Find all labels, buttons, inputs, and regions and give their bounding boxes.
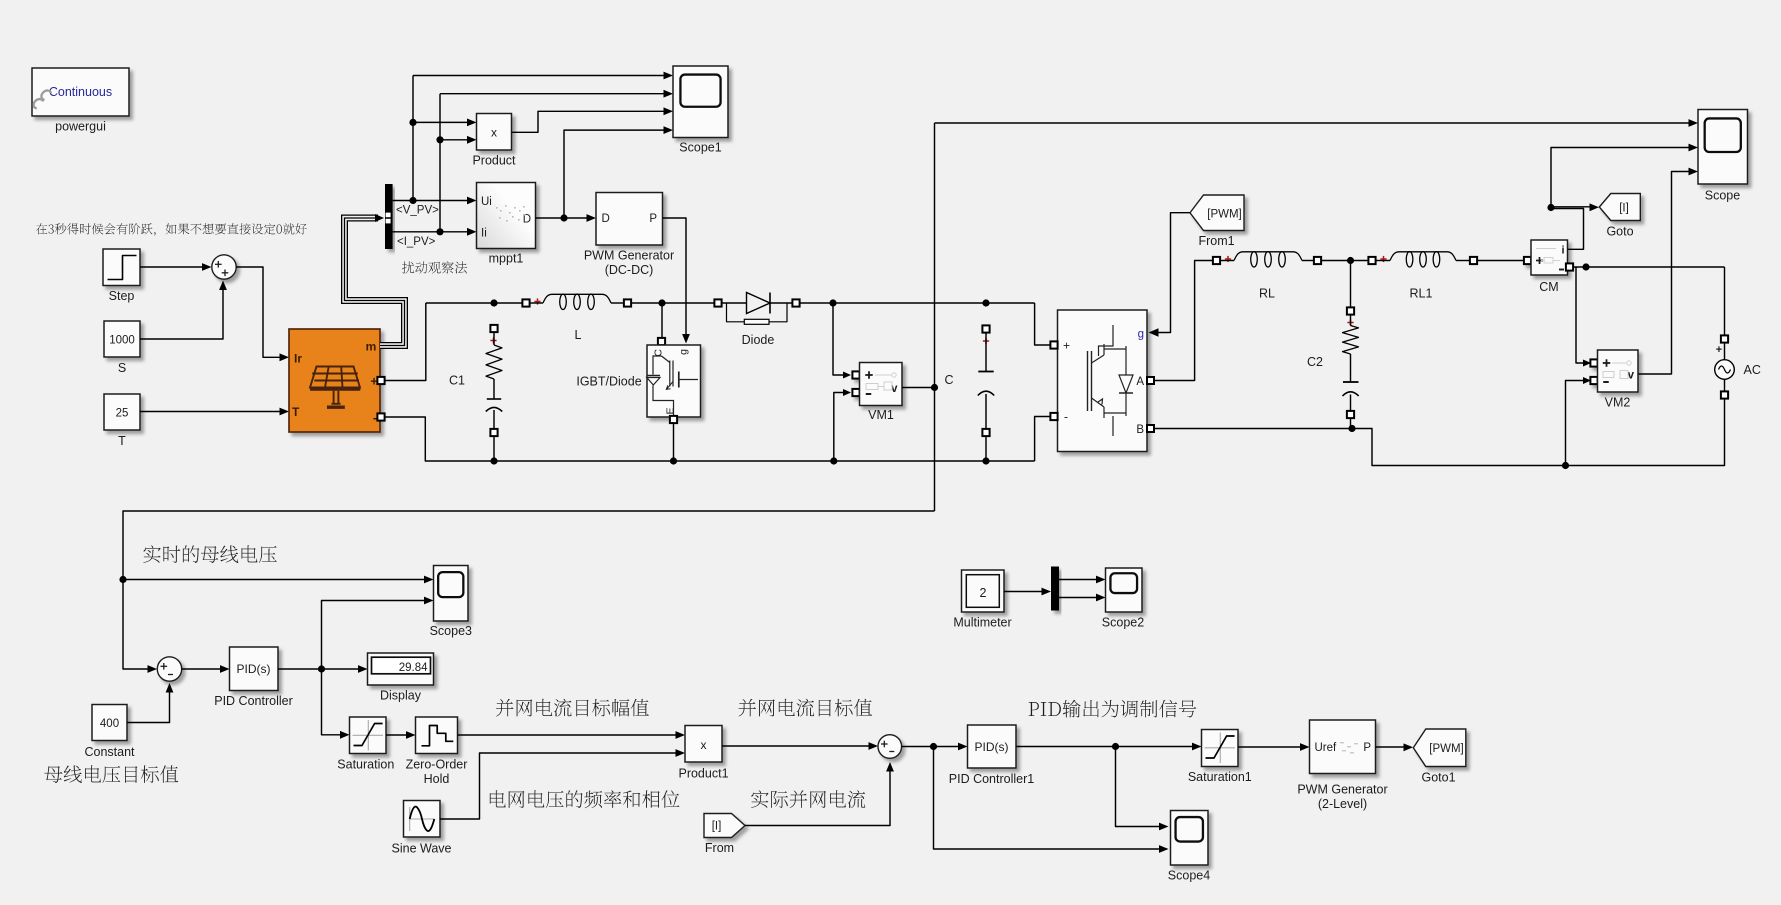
svg-text:-: - <box>1064 410 1068 424</box>
wire V_PV to Scope1 input 1 <box>413 72 673 80</box>
wire PID1 tap to Scope4 input 1 <box>1116 747 1169 831</box>
wire Product to Scope1 input 3 <box>512 107 674 132</box>
svg-text:C2: C2 <box>1307 355 1323 369</box>
svg-text:C: C <box>653 349 665 357</box>
wire RL1 to CM <box>1477 260 1524 262</box>
svg-text:Scope4: Scope4 <box>1168 869 1210 883</box>
bus wire PV m to Bus Selector <box>345 214 405 346</box>
scope block Scope2 <box>1106 568 1143 612</box>
wire PID1 to Saturation1 <box>1016 743 1202 751</box>
Bus Selector mux bar <box>385 184 393 249</box>
signal label <I_PV> <box>397 236 436 248</box>
AC voltage source <box>1715 335 1735 398</box>
wire Sum4 to PID Controller1 <box>902 743 968 751</box>
IGBT E port and wire to bottom rail <box>670 416 677 461</box>
wire CM i to junction <box>1551 209 1584 250</box>
port L left <box>522 298 540 306</box>
svg-text:Product: Product <box>472 154 516 168</box>
wire PID to Scope3 input 2 <box>322 597 434 669</box>
wire From1 to bridge gate <box>1158 213 1190 333</box>
wire VM1 v measurement vertical <box>902 123 938 511</box>
wire bottom rail to bridge - <box>1035 417 1051 462</box>
wire S to Sum lower input <box>140 281 227 340</box>
bridge ports <box>1050 341 1154 432</box>
wire Step to Sum <box>140 263 212 271</box>
svg-text:E: E <box>665 407 677 414</box>
svg-text:L: L <box>575 328 582 342</box>
svg-text:Ir: Ir <box>294 352 302 366</box>
svg-text:1000: 1000 <box>109 335 135 347</box>
svg-text:25: 25 <box>116 408 129 420</box>
wire V_PV to mppt1 Ui <box>393 197 477 205</box>
svg-text:Display: Display <box>380 689 422 703</box>
powergui block <box>32 68 129 116</box>
DC bottom rail wire <box>385 417 1035 465</box>
wire IGBT collector tap <box>658 303 665 345</box>
bridge gate arrow <box>1149 328 1159 336</box>
diode Diode with snubber <box>722 293 793 325</box>
From tag From1 [PWM] <box>1190 195 1244 231</box>
wire bridge A to RL <box>1154 261 1213 381</box>
svg-text:Goto1: Goto1 <box>1421 770 1455 784</box>
port diode right <box>792 299 799 306</box>
constant T = 25 <box>104 394 140 430</box>
svg-text:Ui: Ui <box>481 196 492 208</box>
port diode left <box>714 299 721 306</box>
svg-text:PID Controller: PID Controller <box>214 694 293 708</box>
source block Step <box>103 249 140 286</box>
svg-text:AC: AC <box>1744 363 1761 377</box>
voltmeter block VM1 <box>852 363 902 406</box>
annotation PID output is modulation signal <box>1029 700 1197 718</box>
demux to Scope2 wires <box>1059 576 1106 602</box>
svg-text:Scope2: Scope2 <box>1102 615 1144 629</box>
wire ZOH to Product1 input 1 <box>458 731 686 739</box>
capacitor branch C2 <box>1343 261 1359 429</box>
svg-text:g: g <box>678 349 690 355</box>
wire top rail to bridge + <box>1035 303 1051 345</box>
svg-text:RL: RL <box>1259 287 1275 301</box>
svg-text:VM2: VM2 <box>1605 396 1631 410</box>
Goto tag [I] <box>1599 194 1640 221</box>
annotation note step at 3s <box>36 223 307 236</box>
svg-text:PID(s): PID(s) <box>975 740 1009 754</box>
svg-text:mppt1: mppt1 <box>489 252 524 266</box>
multiplier block Product1 <box>685 726 722 763</box>
svg-text:Sine Wave: Sine Wave <box>392 841 452 855</box>
wire bridge B rail <box>1154 425 1720 469</box>
svg-text:400: 400 <box>100 718 119 730</box>
annotation bus voltage target <box>44 765 178 783</box>
svg-text:x: x <box>701 738 707 752</box>
MPPT controller block mppt1 <box>477 183 536 249</box>
wire node to Goto <box>1551 203 1599 211</box>
port RL right <box>1314 257 1321 264</box>
svg-text:From1: From1 <box>1198 234 1234 248</box>
wire VM2 v to Scope input 3 <box>1639 168 1699 374</box>
wire L to diode <box>631 299 718 306</box>
svg-text:Constant: Constant <box>84 745 135 759</box>
PID Controller block <box>230 647 279 691</box>
Goto tag Goto1 [PWM] <box>1413 729 1466 767</box>
svg-text:(2-Level): (2-Level) <box>1318 797 1367 811</box>
wire node to Scope input 2 <box>1551 144 1698 208</box>
wire From to Sum4 lower input <box>745 762 894 826</box>
sine wave block Sine Wave <box>404 801 441 838</box>
svg-text:PID(s): PID(s) <box>237 662 271 676</box>
svg-text:powergui: powergui <box>55 120 106 134</box>
wire PWM P to IGBT gate <box>663 218 690 344</box>
svg-text:Zero-Order: Zero-Order <box>406 757 468 771</box>
wire bus voltage feedback <box>119 511 934 673</box>
inductor RL <box>1220 252 1314 267</box>
PWM Generator (2-Level) block <box>1310 720 1376 774</box>
svg-text:Saturation: Saturation <box>337 757 394 771</box>
DC top rail wire <box>426 299 526 306</box>
wire AC bottom <box>1720 399 1725 466</box>
svg-text:T: T <box>118 434 126 448</box>
annotation grid voltage frequency and phase <box>490 790 680 808</box>
wire PID output node <box>278 665 368 673</box>
saturation block Saturation <box>350 717 387 754</box>
sum junction Sum4 <box>878 735 902 759</box>
wire T to PV T input <box>140 408 289 416</box>
wire I_PV tap to Product input 2 <box>436 94 476 232</box>
svg-text:m: m <box>366 340 377 354</box>
wire diode to C node <box>800 299 1035 306</box>
svg-text:T: T <box>292 405 300 419</box>
wire PV + to DC top rail <box>385 303 426 381</box>
sum junction Sum3 <box>157 657 181 681</box>
svg-text:Continuous: Continuous <box>49 85 112 99</box>
constant S = 1000 <box>104 321 140 357</box>
scope block Scope3 <box>434 566 469 622</box>
annotation actual grid current <box>751 790 865 808</box>
svg-text:A: A <box>1136 376 1144 388</box>
inductor L <box>530 294 625 309</box>
CM - output port <box>1566 263 1573 270</box>
svg-text:(DC-DC): (DC-DC) <box>605 263 654 277</box>
wire PWM2 to Goto1 <box>1376 743 1414 751</box>
wire Product1 to Sum4 <box>722 742 878 750</box>
wire I_PV to mppt1 Ii <box>393 228 477 236</box>
svg-text:[I]: [I] <box>712 821 722 833</box>
wire CM - to AC and VM2 <box>1573 263 1725 366</box>
svg-text:2: 2 <box>980 586 987 600</box>
annotation grid current target amplitude <box>496 699 649 717</box>
annotation grid current target <box>739 699 873 717</box>
svg-text:[PWM]: [PWM] <box>1429 743 1464 755</box>
annotation realtime bus voltage <box>143 545 277 563</box>
svg-text:B: B <box>1136 424 1144 436</box>
svg-text:Saturation1: Saturation1 <box>1188 770 1252 784</box>
scope block Scope <box>1698 110 1748 185</box>
PID Controller1 block <box>968 725 1017 768</box>
wire V_PV tap to Product input 1 <box>409 76 476 201</box>
svg-text:PWM Generator: PWM Generator <box>584 249 674 263</box>
svg-text:RL1: RL1 <box>1410 287 1433 301</box>
wire Sine Wave to Product1 input 2 <box>440 749 685 819</box>
wire VM2 - input <box>1566 377 1592 466</box>
capacitor branch C <box>978 325 994 461</box>
wire I_PV to Scope1 input 2 <box>440 90 673 98</box>
wire RL to RL1 <box>1321 257 1369 264</box>
From tag [I] <box>704 814 745 838</box>
constant block Constant 400 <box>92 705 127 741</box>
svg-text:P: P <box>1363 742 1371 754</box>
zero-order hold block <box>416 717 458 754</box>
universal bridge inverter block <box>1058 310 1148 452</box>
svg-text:Step: Step <box>109 289 135 303</box>
inductor RL1 <box>1376 252 1471 267</box>
svg-text:PID Controller1: PID Controller1 <box>949 772 1034 786</box>
svg-text:Uref: Uref <box>1315 742 1338 754</box>
wire mppt1 D tap to Scope1 input 4 <box>564 126 673 218</box>
wire bus voltage to Scope input 1 <box>935 119 1699 127</box>
wire mppt1 D to PWM Generator DC-DC <box>536 214 597 222</box>
scope block Scope4 <box>1171 811 1209 866</box>
current measurement block CM <box>1524 240 1568 275</box>
port RL1 right <box>1470 257 1477 264</box>
annotation P&O method <box>402 261 467 273</box>
svg-text:Hold: Hold <box>424 772 450 786</box>
svg-text:+: + <box>1063 339 1070 353</box>
wire feedback to Scope3 input 1 <box>123 576 434 584</box>
svg-text:x: x <box>491 126 497 140</box>
svg-text:P: P <box>649 213 657 225</box>
PV output ports <box>377 377 384 421</box>
PWM Generator (DC-DC) block <box>596 193 663 246</box>
voltmeter block VM2 <box>1590 350 1638 392</box>
svg-text:D: D <box>523 213 531 225</box>
voltmeter VM1 tap wires <box>833 303 851 461</box>
wire PID to Saturation <box>322 669 350 739</box>
svg-text:IGBT/Diode: IGBT/Diode <box>576 375 641 389</box>
wire Sum3 to PID Controller <box>182 665 230 673</box>
wire Sum to PV Ir input <box>236 267 289 361</box>
display block Display 29.84 <box>368 653 434 685</box>
signal label <V_PV> <box>396 205 439 217</box>
svg-text:PWM Generator: PWM Generator <box>1297 783 1387 797</box>
sum junction Sum <box>212 255 236 279</box>
svg-text:Scope: Scope <box>1705 189 1740 203</box>
svg-text:+: + <box>1716 344 1722 356</box>
svg-text:g: g <box>1138 329 1144 341</box>
svg-text:Scope1: Scope1 <box>679 141 721 155</box>
wire Saturation to Zero-Order Hold <box>386 731 416 739</box>
svg-text:Goto: Goto <box>1606 224 1633 238</box>
svg-text:Ii: Ii <box>481 227 487 239</box>
port RL left <box>1213 256 1231 264</box>
saturation block Saturation1 <box>1202 730 1239 767</box>
svg-text:<V_PV>: <V_PV> <box>396 205 439 217</box>
svg-text:CM: CM <box>1539 280 1558 294</box>
svg-text:C1: C1 <box>449 374 465 388</box>
svg-text:Scope3: Scope3 <box>430 624 472 638</box>
svg-text:S: S <box>118 361 126 375</box>
svg-text:[PWM]: [PWM] <box>1207 208 1242 220</box>
svg-text:[I]: [I] <box>1619 202 1629 214</box>
svg-text:v: v <box>1628 369 1635 381</box>
port L right <box>624 299 631 306</box>
svg-text:Product1: Product1 <box>678 767 728 781</box>
demux bar <box>1051 567 1059 611</box>
IGBT/Diode chopper block <box>647 345 701 417</box>
svg-text:VM1: VM1 <box>868 408 894 422</box>
svg-text:Multimeter: Multimeter <box>953 615 1011 629</box>
multiplier block Product <box>477 114 512 151</box>
svg-text:From: From <box>705 841 734 855</box>
svg-text:Diode: Diode <box>742 333 775 347</box>
multimeter block <box>962 570 1005 612</box>
svg-text:<I_PV>: <I_PV> <box>397 236 436 248</box>
svg-text:C: C <box>944 373 953 387</box>
wire Constant to Sum3 <box>127 683 173 723</box>
junction node I signal <box>1547 204 1554 211</box>
capacitor branch C1 <box>486 325 502 461</box>
svg-text:i: i <box>1561 245 1564 257</box>
scope block Scope1 <box>673 66 728 138</box>
svg-text:D: D <box>602 213 610 225</box>
wire Sum4 tap to Scope4 input 2 <box>934 747 1169 853</box>
svg-text:29.84: 29.84 <box>399 662 428 674</box>
wire Saturation1 to PWM Generator 2-Level <box>1238 743 1310 751</box>
wire Multimeter to demux <box>1004 588 1051 596</box>
PV array block <box>289 329 380 432</box>
port RL1 left <box>1368 256 1386 264</box>
